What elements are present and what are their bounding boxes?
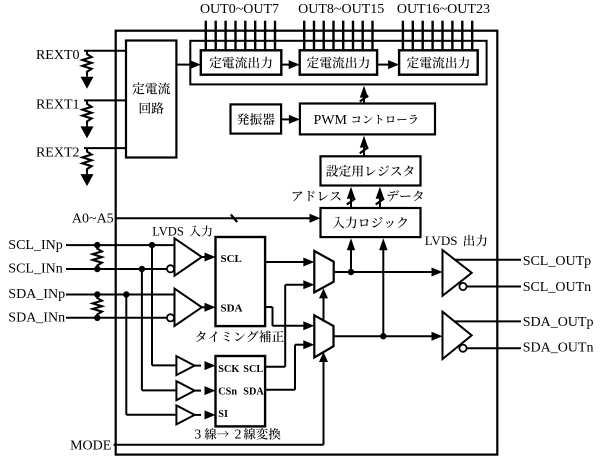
arrow: oscillator to PWM controller bbox=[281, 118, 290, 120]
bus wire: A0~A5 into input logic bbox=[115, 217, 312, 219]
arrow: U2 to U3 bbox=[377, 64, 390, 66]
wire: mux M2 output to LVDS driver U10 bbox=[334, 335, 434, 337]
svg-text:MODE: MODE bbox=[70, 438, 111, 453]
current-sink arrow below R2 bbox=[86, 125, 88, 128]
svg-text:SCL_OUTn: SCL_OUTn bbox=[523, 280, 591, 295]
current-sink arrow below R3 bbox=[86, 173, 88, 176]
block: constant-current output U2 (OUT8-15) bbox=[300, 50, 377, 74]
svg-text:OUT0~OUT7: OUT0~OUT7 bbox=[200, 2, 279, 17]
wire: mux M1 output to LVDS driver U9 bbox=[334, 271, 434, 273]
svg-text:SCL_OUTp: SCL_OUTp bbox=[523, 254, 591, 269]
current-sink arrow below R1 bbox=[86, 75, 88, 78]
svg-text:SDA_OUTn: SDA_OUTn bbox=[523, 341, 594, 356]
wire: SDA_OUTp bbox=[455, 320, 521, 322]
svg-text:SDA_INn: SDA_INn bbox=[8, 311, 65, 326]
bus arrow: PWM controller up to output blocks bbox=[363, 94, 365, 104]
arrow: select into mux M1 bbox=[319, 288, 328, 298]
svg-text:SDA_OUTp: SDA_OUTp bbox=[523, 315, 594, 330]
svg-text:SCK: SCK bbox=[218, 364, 239, 375]
wire: timing SDA output down to mux M2 input 1 bbox=[265, 306, 272, 308]
arrow: U4 output to timing box SCL bbox=[202, 256, 207, 258]
block: input logic (nyuuryoku logic) bbox=[321, 208, 421, 237]
arrow: U7 to 3-wire box CSn bbox=[195, 390, 201, 392]
resistor R2 on REXT1 bbox=[82, 100, 91, 125]
wire: REXT2 to current circuit bbox=[84, 147, 126, 149]
block: timing correction (SCL/SDA) bbox=[216, 237, 266, 326]
output pin wires OUT8-OUT15 (8 lines) bbox=[303, 21, 305, 51]
arrow: current circuit to output block U1 bbox=[176, 64, 191, 66]
wire: REXT0 to current circuit bbox=[84, 50, 126, 52]
wire: 3-wire SDA output up to mux M2 input 2 bbox=[265, 389, 295, 391]
wire: SCL_INn to receiver U4 inverting input bbox=[66, 268, 167, 270]
block: constant-current circuit (teidenryuu kairo) bbox=[126, 41, 176, 158]
svg-text:LVDS: LVDS bbox=[425, 233, 458, 248]
LVDS receiver U4 (SCL) bbox=[175, 238, 202, 275]
bus arrow: data from input logic to registers bbox=[379, 196, 381, 208]
IC outer boundary box bbox=[116, 31, 498, 455]
junction on SDA line to input logic bbox=[380, 333, 386, 339]
wire: SDA_INp to receiver U5 bbox=[66, 294, 175, 296]
group frame around three constant-current output blocks bbox=[190, 41, 486, 85]
svg-text:2: 2 bbox=[235, 428, 242, 443]
buffer U6 (SCK) bbox=[176, 356, 194, 375]
block: setting registers (settei-you regista) bbox=[321, 156, 421, 185]
wire: SDA_INn to receiver U5 inverting input bbox=[66, 317, 167, 319]
svg-text:SDA_INp: SDA_INp bbox=[8, 287, 65, 302]
svg-text:SDA: SDA bbox=[221, 302, 243, 314]
wire: 3-wire SCL output up to mux M1 input 2 bbox=[265, 366, 285, 368]
junction on SCL_INn and tap to CSn buffer bbox=[139, 266, 145, 272]
bus arrow: registers up to PWM controller bbox=[363, 145, 365, 157]
wire: SCL_INp to receiver U4 bbox=[66, 244, 175, 246]
resistor R3 on REXT2 bbox=[82, 148, 91, 173]
termination resistor R4 across SCL pair bbox=[93, 245, 102, 269]
svg-text:REXT1: REXT1 bbox=[36, 98, 80, 113]
resistor R1 on REXT0 bbox=[82, 51, 91, 75]
arrow: U1 to U2 bbox=[281, 64, 291, 66]
LVDS driver U9 (SCL out) bbox=[443, 250, 472, 296]
svg-text:OUT8~OUT15: OUT8~OUT15 bbox=[298, 2, 384, 17]
label timing correction (timing hosei) bbox=[196, 331, 284, 343]
svg-text:CSn: CSn bbox=[218, 386, 237, 397]
svg-text:PWM: PWM bbox=[314, 113, 348, 128]
buffer U8 (SI) bbox=[176, 405, 194, 424]
mux M2 (SDA source select) bbox=[314, 315, 333, 357]
svg-text:OUT16~OUT23: OUT16~OUT23 bbox=[397, 2, 490, 17]
svg-text:SCL_INp: SCL_INp bbox=[8, 238, 62, 253]
bus arrow: address from input logic to registers bbox=[350, 196, 352, 208]
arrow: U5 output to timing box SDA bbox=[202, 306, 207, 308]
junction on SCL_INp and tap to SCK buffer bbox=[149, 242, 155, 248]
block: constant-current output U3 (OUT16-23) bbox=[399, 50, 478, 74]
wire: timing SCL output to mux M1 input 1 bbox=[265, 261, 306, 263]
junction on SCL line to input logic bbox=[348, 269, 354, 275]
junction on SDA_INp and tap to SI buffer bbox=[123, 291, 129, 297]
svg-text:A0~A5: A0~A5 bbox=[72, 212, 114, 227]
label address (adoresu) bbox=[293, 191, 341, 201]
wire: MODE select line bbox=[114, 444, 324, 446]
block: PWM controller bbox=[300, 104, 435, 135]
LVDS driver U10 (SDA out) bbox=[443, 312, 472, 359]
arrow: MODE into mux M2 select bbox=[319, 352, 328, 362]
svg-text:SCL: SCL bbox=[243, 364, 263, 375]
svg-text:SCL_INn: SCL_INn bbox=[8, 262, 62, 277]
output pin wires OUT16-OUT23 (8 lines) bbox=[402, 21, 404, 51]
block: oscillator (hasshinki) bbox=[231, 104, 282, 133]
arrow: U8 to 3-wire box SI bbox=[195, 414, 201, 416]
svg-text:SI: SI bbox=[218, 409, 228, 420]
wire: REXT1 to current circuit bbox=[84, 99, 126, 101]
block: constant-current output U1 (OUT0-7) bbox=[201, 50, 281, 74]
LVDS receiver U5 (SDA) bbox=[175, 289, 202, 326]
svg-text:SCL: SCL bbox=[221, 253, 242, 265]
arrow: U6 to 3-wire box SCK bbox=[195, 365, 201, 367]
svg-text:REXT0: REXT0 bbox=[36, 48, 80, 63]
svg-text:SDA: SDA bbox=[243, 386, 264, 397]
svg-text:REXT2: REXT2 bbox=[36, 145, 80, 160]
wire: SCL_OUTp bbox=[455, 259, 521, 261]
wire: select from M2 up to mux M1 bbox=[323, 297, 325, 322]
wire: SCL_OUTn bbox=[467, 286, 521, 288]
wire: SDA_OUTn bbox=[467, 347, 521, 349]
buffer U7 (CSn) bbox=[176, 381, 194, 400]
svg-text:3: 3 bbox=[194, 428, 201, 443]
svg-text:LVDS: LVDS bbox=[152, 225, 184, 239]
termination resistor R5 across SDA pair bbox=[93, 295, 102, 318]
mux M1 (SCL source select) bbox=[314, 251, 333, 292]
output pin wires OUT0-OUT7 (8 lines) bbox=[205, 21, 207, 51]
label data (deeta) bbox=[388, 190, 423, 201]
block: 3-wire to 2-wire converter bbox=[216, 356, 266, 426]
